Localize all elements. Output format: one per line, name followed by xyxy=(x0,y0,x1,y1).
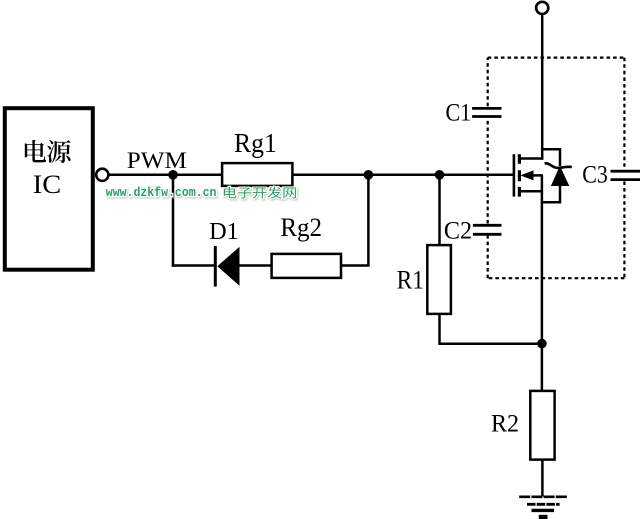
label 电源 xyxy=(25,140,71,163)
svg-text:C3: C3 xyxy=(582,159,608,188)
wire: Rg1 to gate xyxy=(292,174,514,177)
capacitor C3 xyxy=(611,171,640,179)
wire: D1 to Rg2 xyxy=(238,264,272,267)
wire: Rg2 up to gate wire xyxy=(341,175,368,266)
transistor Q1 drain stub xyxy=(519,157,543,160)
wire: terminal to Rg1 xyxy=(108,174,222,177)
resistor R2 xyxy=(530,391,554,460)
wire: junction down to R1 xyxy=(438,175,441,246)
body diode triangle xyxy=(551,166,569,186)
dashed package outline left xyxy=(487,58,489,279)
svg-text:C1: C1 xyxy=(446,99,472,127)
transistor Q1 body arrow xyxy=(520,170,543,180)
transistor Q1 source stub xyxy=(519,190,543,193)
svg-text:D1: D1 xyxy=(209,218,239,245)
node: R1 branch junction xyxy=(435,170,445,180)
svg-text:C2: C2 xyxy=(444,216,472,245)
svg-text:R1: R1 xyxy=(397,265,424,294)
dashed package outline bottom xyxy=(488,277,625,279)
resistor Rg1 xyxy=(222,163,292,186)
dashed package outline right xyxy=(623,58,625,279)
wire: terminal down to drain xyxy=(541,14,544,160)
node: PWM junction xyxy=(168,170,178,180)
PWM output terminal xyxy=(96,169,108,181)
body diode cathode (wavy bar) xyxy=(545,163,572,168)
capacitor C2 xyxy=(473,225,502,234)
wire: branch to D1 xyxy=(172,264,216,267)
wire: source down to R2 xyxy=(541,175,544,391)
svg-text:IC: IC xyxy=(33,170,61,199)
node: Rg2 branch junction xyxy=(364,170,374,180)
wire: body diode bottom branch xyxy=(542,185,560,202)
dashed package outline top xyxy=(488,56,625,58)
transistor Q1 gate bar xyxy=(513,154,516,196)
watermark 电子开发网 xyxy=(224,187,296,199)
svg-text:www.dzkfw.com.cn: www.dzkfw.com.cn xyxy=(106,185,217,200)
resistor Rg2 xyxy=(272,254,341,278)
wire: down from PWM junction xyxy=(172,175,175,267)
resistor R1 xyxy=(427,245,451,314)
wire: R1 bottom to source node xyxy=(440,314,542,344)
svg-text:Rg1: Rg1 xyxy=(234,127,277,158)
capacitor C1 xyxy=(472,108,501,116)
ground xyxy=(519,497,567,517)
power IC box xyxy=(5,108,93,270)
transistor Q1 channel segments xyxy=(518,154,521,196)
node: source junction xyxy=(537,339,547,349)
drain terminal xyxy=(536,2,548,14)
diode D1 xyxy=(215,246,239,287)
svg-text:Rg2: Rg2 xyxy=(280,212,322,242)
svg-text:PWM: PWM xyxy=(127,148,187,174)
wire: R2 to ground xyxy=(541,460,544,497)
svg-text:R2: R2 xyxy=(491,411,519,438)
wire: body diode top branch xyxy=(542,149,560,166)
